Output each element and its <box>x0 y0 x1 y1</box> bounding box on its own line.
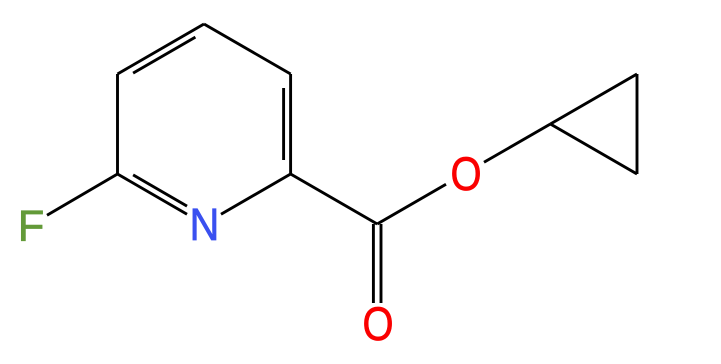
svg-text:F: F <box>18 203 45 251</box>
wire: bond C6=N main <box>118 174 188 214</box>
wire: bond C6=N inner <box>133 175 187 206</box>
wire: bond Cp1-Cp2 <box>636 74 639 174</box>
wire: bond Oe-C8 <box>484 124 550 162</box>
wire: bond C2=C3 main <box>289 74 292 174</box>
wire: bond C2=C3 inner <box>282 88 285 160</box>
wire: bond C8-Cp1 <box>550 74 637 124</box>
svg-text:O: O <box>450 149 481 201</box>
wire: bond C7=Oc left <box>372 224 375 303</box>
wire: bond C3-C4 <box>204 24 291 74</box>
wire: bond C7-Oe <box>377 184 446 224</box>
wire: bond F-C6 <box>47 174 118 215</box>
wire: bond C4=C5 main <box>118 24 205 74</box>
wire: bond C4=C5 inner <box>133 37 195 73</box>
svg-text:O: O <box>362 299 393 351</box>
svg-text:N: N <box>190 200 220 250</box>
wire: bond C5-C6 <box>116 74 119 174</box>
wire: bond N-C2 <box>221 174 291 214</box>
wire: bond C2-C7 <box>291 174 378 224</box>
wire: bond C8-Cp2 <box>550 124 637 174</box>
wire: bond C7=Oc right <box>380 224 383 303</box>
